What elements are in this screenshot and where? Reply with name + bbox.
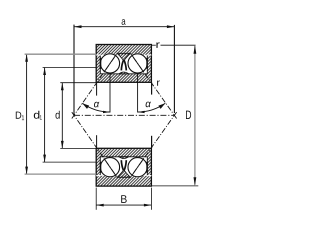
contact line bottom-right ball (dash-dot) (131, 112, 177, 177)
abutment line D1 top (grey) (25, 53, 97, 55)
inner raceway line (bottom section) (100, 156, 147, 158)
ring joint seam right (top section) (147, 54, 151, 56)
extension line B left (95, 188, 97, 210)
ball left (bottom row) (100, 158, 119, 177)
contact line segment inside top-right ball (132, 55, 144, 73)
extension line d bottom (bore line) (60, 147, 96, 149)
dimension B line (96, 204, 151, 206)
bearing outer/inner ring hatched body (bottom section) (96, 148, 151, 186)
dimension B arrow right (144, 204, 152, 207)
face line stub above bottom section right (151, 136, 153, 148)
inner ring shoulder edge right (bottom section) (146, 157, 148, 176)
contact line segment inside top-left ball (104, 55, 116, 73)
contact line top-left ball (dash-dot) (72, 54, 117, 119)
dimension a line (74, 26, 174, 28)
label a (122, 19, 126, 25)
cage prong right (top section) (124, 60, 126, 70)
raceway clearance right ball (bottom section) (127, 157, 148, 178)
ball right (bottom row) (128, 158, 147, 177)
label d1 - subscript 1 (40, 115, 42, 119)
ball-shoulder contact left (bottom section) (100, 162, 102, 173)
inner ring shoulder edge left (top section) (99, 55, 101, 74)
extension line d top (bore line) (60, 82, 96, 84)
dimension d1 arrow bottom (43, 155, 46, 163)
inner ring center rib (top section) (119, 72, 129, 74)
dimension a arrow left (74, 25, 82, 28)
dimension d1 arrow top (43, 68, 46, 76)
outer ring center wedge (top section) (117, 53, 130, 60)
dimension d line (61, 83, 63, 149)
cage prong right (bottom section) (124, 160, 126, 170)
dimension d arrow top (61, 83, 64, 91)
label d (56, 111, 60, 119)
contact line bottom-left ball (dash-dot) (72, 112, 117, 177)
cage prong left (bottom section) (121, 160, 123, 170)
contact line segment inside bottom-left ball (104, 158, 116, 176)
dimension D arrow top (194, 45, 197, 54)
ball-shoulder contact left (top section) (100, 58, 102, 69)
label alpha right (146, 102, 151, 108)
extension line d1 bottom (43, 161, 97, 163)
dimension D line (grey) (194, 46, 196, 185)
extension line D top / r leader line (152, 44, 156, 46)
dimension a arrow right (167, 25, 175, 28)
dimension d arrow bottom (61, 141, 64, 149)
outer ring center wedge (bottom section) (117, 170, 130, 177)
dimension D1 arrow bottom (25, 167, 28, 175)
face line stub above bottom section left (96, 135, 98, 148)
label d1 - d (34, 111, 40, 119)
inner raceway line (top section) (100, 73, 147, 75)
ring joint seam left (bottom section) (96, 175, 100, 177)
cavity between rings (top section) (100, 55, 147, 74)
ball-shoulder contact right (bottom section) (146, 162, 148, 173)
dimension B arrow left (96, 204, 104, 207)
label r bottom (157, 81, 160, 86)
angle arc left arrowhead left end (82, 103, 89, 109)
raceway clearance left ball (bottom section) (100, 157, 121, 178)
label D1 - subscript 1 (22, 115, 24, 120)
cage prong left (top section) (121, 60, 123, 70)
raceway clearance right ball (top section) (127, 53, 148, 74)
bearing outer/inner ring hatched body (top section) (96, 45, 151, 83)
face line stub below top section left (96, 83, 98, 96)
angle arc right arrowhead right end (158, 103, 165, 109)
extension line d1 top (43, 67, 97, 69)
face line stub below top section right (151, 83, 153, 95)
extension line a right (to pressure center) (173, 25, 175, 113)
label B (121, 195, 127, 203)
abutment line D1 bottom (grey) (25, 173, 97, 175)
ball-shoulder contact right (top section) (146, 58, 148, 69)
angle arc left arrowhead right end (103, 111, 110, 113)
ring joint seam left (top section) (96, 54, 100, 56)
inner ring shoulder edge left (bottom section) (99, 157, 101, 176)
cavity between rings (bottom section) (100, 157, 147, 176)
angle arc right arrowhead left end (138, 111, 145, 113)
dimension D1 arrow top (25, 54, 28, 62)
radial reference line left ball (109, 73, 111, 112)
label D (186, 111, 191, 119)
label alpha left (94, 102, 99, 108)
extension line D bottom (151, 185, 198, 187)
angle arc left (82, 103, 110, 112)
contact line segment inside bottom-right ball (132, 158, 144, 176)
contact line top-right ball (dash-dot) (131, 54, 177, 119)
label r top (156, 42, 159, 48)
bearing axis center line (dash-dot) (74, 114, 174, 116)
radial reference line right ball (137, 73, 139, 112)
label D1 - D (16, 112, 21, 119)
raceway clearance left ball (top section) (100, 53, 121, 74)
extension line B right (150, 188, 152, 210)
dimension D arrow bottom (194, 177, 197, 186)
dimension d1 line (44, 68, 46, 163)
inner ring center rib (bottom section) (119, 157, 129, 159)
extension line a left (to pressure center) (73, 25, 75, 116)
ball left (top row) (100, 54, 119, 73)
inner ring shoulder edge right (top section) (146, 55, 148, 74)
ball right (top row) (128, 54, 147, 73)
angle arc right (138, 103, 166, 112)
ring joint seam right (bottom section) (147, 175, 151, 177)
dimension D1 line (26, 54, 28, 174)
